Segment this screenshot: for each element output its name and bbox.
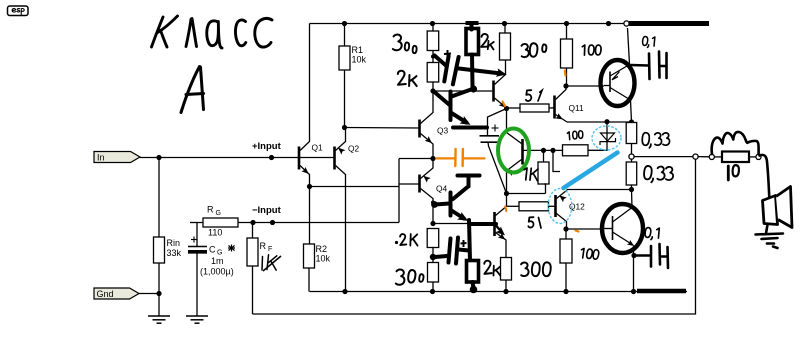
hand capacitor upper with + (444, 56, 448, 81)
hand label -2K lower (395, 241, 398, 244)
junction vbe emitter (504, 191, 509, 196)
hand label 100 lower (581, 248, 599, 259)
node In tag (94, 152, 140, 163)
junction Q3 collector node (430, 88, 435, 93)
wire vbe base (524, 149, 563, 151)
junction gnd (156, 291, 161, 296)
transistor Q3 (418, 120, 421, 138)
wire to speaker (760, 155, 770, 203)
junction Q4 chain (431, 201, 435, 205)
hand thick resistor upper 2k (466, 29, 479, 55)
svg-text:1m: 1m (211, 256, 224, 266)
hand title A (181, 67, 204, 113)
wire to output device base lower (566, 228, 604, 230)
wire Q3 collector to driver base (433, 90, 494, 92)
hand label 2K bottom (484, 261, 492, 274)
hand label 0,33 upper (642, 133, 669, 148)
output wire (634, 156, 693, 158)
junction Q3/Q4 emitters (430, 156, 435, 161)
wire emitter down (631, 100, 632, 122)
transistor Q1 (298, 147, 301, 170)
svg-text:+Input: +Input (252, 141, 282, 152)
hand label 1K vbe (523, 168, 538, 181)
inductor hand coil (712, 132, 759, 154)
junction bottom rail Q4 chain (430, 289, 435, 294)
wire lower emitter up (631, 190, 634, 209)
wire Q11 emitter to output resistor (567, 121, 632, 123)
cyan annotation line (564, 153, 618, 189)
hand label 2K upper left (398, 71, 406, 85)
svg-text:R: R (207, 205, 214, 215)
hand label 300 upper left (393, 34, 403, 50)
capacitor orange hand (437, 149, 485, 166)
resistor RF (252, 223, 254, 239)
resistor 51 upper (507, 107, 521, 109)
hand label 0,1 lower (645, 227, 659, 240)
wire Q4 base (399, 183, 420, 185)
wire Q4 collector to lower driver base (433, 223, 495, 225)
resistor 100 mid horizontal (562, 149, 564, 151)
node -input dots (250, 220, 255, 225)
wire In to Q1/Q2 base (140, 157, 335, 159)
svg-text:Q3: Q3 (437, 126, 449, 136)
junction Q3 chain top (430, 21, 435, 26)
resistor 300 lower right (printed) (501, 258, 512, 281)
junction mid resistors top (432, 51, 434, 63)
resistor 2K lower (printed) (427, 229, 439, 248)
resistor 1K vbe (543, 150, 545, 162)
wire collector to rail open node (628, 28, 630, 65)
node +input dot (269, 155, 274, 160)
transistor Q4 (418, 175, 421, 193)
hand label 300 bottom right (521, 262, 551, 276)
capacitor CG 1m (196, 223, 198, 247)
svg-text:(1,000µ): (1,000µ) (200, 267, 234, 277)
svg-text:33k: 33k (167, 248, 182, 258)
hand transistor lower driver overdraw (449, 193, 453, 216)
bottom supply rail (310, 291, 688, 293)
resistor 51 lower (507, 205, 520, 207)
resistor 300 upper right (printed) (504, 24, 506, 34)
transistor Q11 (553, 96, 556, 119)
resistor 100 lower vertical (565, 229, 567, 239)
svg-text:10k: 10k (352, 55, 367, 65)
svg-text:C: C (209, 245, 216, 255)
speaker ground (hand) (756, 225, 784, 249)
svg-text:110: 110 (208, 228, 222, 238)
bootstrap diagonal upper (488, 109, 507, 136)
wire -input node (238, 222, 399, 224)
hand thick top rail extension (629, 21, 709, 26)
wire to Q3 base (345, 127, 420, 130)
hand label 300 mid (522, 44, 529, 57)
orange marks (503, 71, 579, 232)
wire lower collector down (633, 246, 635, 292)
svg-text:R: R (260, 241, 267, 251)
resistor 0.33 lower (631, 159, 633, 162)
wire 1K bottom to vbe emitter (507, 193, 546, 195)
wire Q1 emitter to R2 (309, 187, 311, 245)
junction upper driver emitter (504, 106, 509, 111)
junction R1 top (342, 21, 347, 26)
open node on rail (624, 21, 629, 26)
resistor 2K upper (printed) (427, 63, 439, 83)
open node output (629, 154, 634, 159)
hand label 100 top right (582, 45, 601, 55)
wire CG to ground (196, 253, 198, 316)
hand label 100 mid (567, 130, 583, 139)
cyan ellipse around Q12 (548, 189, 572, 224)
wire Q12 emitter to output node (567, 189, 632, 191)
resistor Rin 33k (154, 237, 165, 263)
svg-text:Q4: Q4 (436, 184, 448, 194)
transistor vbe multiplier (green circled) (506, 109, 508, 134)
junction Q11 collector (563, 83, 568, 88)
wire RF to feedback rail (252, 266, 254, 314)
wire to output device base upper (566, 85, 604, 87)
junction input (156, 155, 161, 160)
open node feedback tap (693, 154, 698, 159)
resistor 300 upper (printed) (432, 24, 434, 32)
junction bottom rail 300R (503, 289, 508, 294)
svg-text:G: G (216, 210, 221, 217)
resistor 100 upper vertical (566, 24, 568, 40)
svg-text:−Input: −Input (252, 205, 282, 216)
svg-text:Rin: Rin (167, 238, 181, 248)
transistor upper driver (492, 81, 495, 102)
svg-text:Q11: Q11 (569, 103, 585, 113)
wire Rin to gnd node (158, 263, 160, 294)
zener diode chain (606, 21, 611, 26)
ground symbol CG (186, 316, 208, 323)
wire feedback Z-route (310, 186, 400, 188)
hand transistor upper driver overdraw (449, 92, 453, 121)
open node R10 right (756, 154, 761, 159)
esp logo (8, 6, 29, 16)
feedback bottom wire (253, 159, 696, 314)
power transistor upper (hand circle) (601, 60, 635, 106)
resistor 300 lower (printed) (428, 263, 439, 283)
capacitor 0.1 upper (hand) (631, 52, 667, 80)
svg-text:Q1: Q1 (312, 143, 324, 153)
resistor RG 110 (190, 222, 203, 224)
resistor R2 10k (304, 244, 315, 268)
transistor lower driver (493, 212, 496, 236)
capacitor bootstrap (480, 136, 500, 142)
resistor R1 10k (344, 24, 346, 47)
hand thick bottom rail overdraw (637, 289, 686, 294)
wire input down to Rin (158, 158, 160, 238)
junction Q12 collector (563, 226, 568, 231)
stub pot wiper (553, 150, 560, 171)
power transistor lower (hand circle) (602, 204, 643, 253)
hand label 51 lower (528, 217, 533, 227)
hand capacitor lower with + (449, 239, 451, 263)
junction rail 300 (502, 21, 507, 26)
junction bottom rail R2 (342, 289, 347, 294)
green ellipse annotation (498, 129, 529, 173)
hand label 1K crossed out (261, 257, 264, 271)
resistor 0.33 upper (626, 123, 637, 144)
capacitor 0.1 lower (hand) (637, 244, 669, 268)
top supply rail (310, 23, 631, 25)
svg-text:In: In (97, 153, 105, 163)
node Gnd tag (94, 288, 139, 299)
svg-text:R2: R2 (316, 244, 328, 254)
junction 0.33 lower (629, 187, 634, 192)
hand label 51 upper (526, 90, 531, 101)
junction emitter/0.33 (629, 119, 634, 124)
wire Gnd tag to node (139, 293, 159, 295)
svg-text:F: F (268, 246, 272, 253)
resistor 10 (hand) (722, 152, 749, 163)
wire bootstrap lower lead (488, 142, 507, 193)
svg-text:R1: R1 (352, 45, 364, 55)
hand label 2k mid (481, 34, 489, 48)
transistor Q12 (554, 195, 557, 217)
hand thick resistor lower 2k (467, 261, 479, 283)
transistor Q2 (333, 147, 336, 170)
junction Q1 emitter (307, 184, 312, 189)
ground symbol left (158, 294, 160, 316)
speaker (hand) (763, 196, 778, 225)
svg-text:Q2: Q2 (348, 144, 360, 154)
hand label 0,33 lower (644, 166, 674, 183)
svg-text:Gnd: Gnd (97, 289, 114, 299)
junction 1K top (541, 148, 546, 153)
hand title КЛАСС (152, 16, 273, 48)
open node R10 left (709, 154, 714, 159)
hand label 0,1 top (642, 36, 655, 47)
hand label 300 lower (396, 269, 406, 285)
junction R1 bottom / Q2 collector (342, 125, 347, 130)
svg-text:10k: 10k (316, 254, 331, 264)
hand label 10 speaker (727, 166, 730, 180)
cyan ellipse around zener (592, 126, 621, 150)
